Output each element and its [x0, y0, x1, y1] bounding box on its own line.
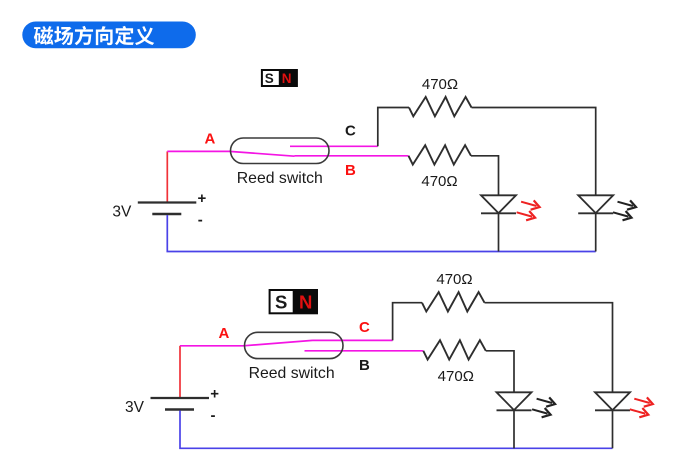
LED D1 light arrows	[532, 397, 555, 417]
svg-text:-: -	[198, 212, 203, 229]
svg-text:3V: 3V	[125, 399, 145, 416]
wire: node A to reed switch (magenta)	[180, 345, 244, 347]
svg-text:B: B	[345, 162, 356, 179]
svg-text:470Ω: 470Ω	[421, 173, 457, 190]
wire: LED1 cathode down	[498, 213, 500, 251]
svg-text:C: C	[345, 123, 356, 140]
wire: battery + up to node A (red)	[179, 346, 181, 397]
wire: battery - to LED cathodes (blue)	[180, 411, 613, 449]
magnet S-N top	[261, 69, 298, 87]
LED D2 light arrows	[613, 200, 636, 220]
wire: node A to reed switch (magenta)	[167, 150, 229, 152]
svg-text:Reed switch: Reed switch	[249, 365, 335, 382]
reed arm A-B closed (magenta)	[230, 151, 295, 156]
svg-text:B: B	[359, 357, 370, 374]
wire: R2 down to LED1	[486, 351, 514, 393]
wire: R1 to right vertical down to LED2	[485, 303, 613, 393]
svg-text:470Ω: 470Ω	[436, 271, 472, 288]
wire: R1 to right vertical down to LED2	[472, 108, 596, 196]
wire: battery + up to node A (red)	[166, 151, 168, 201]
contact C stub (magenta)	[290, 145, 378, 147]
svg-text:Reed switch: Reed switch	[237, 170, 323, 187]
svg-text:C: C	[359, 319, 370, 336]
svg-text:3V: 3V	[112, 204, 132, 221]
svg-text:A: A	[219, 325, 230, 342]
LED D1	[481, 195, 516, 213]
wire: LED2 cathode down	[612, 410, 614, 448]
battery bottom 3V	[151, 398, 210, 410]
resistor R1 470ohm	[409, 97, 472, 116]
LED D1	[497, 392, 532, 410]
svg-text:+: +	[198, 190, 207, 207]
wire: LED1 cathode down	[513, 410, 515, 448]
reed arm A-C closed (magenta)	[244, 340, 313, 345]
svg-text:-: -	[211, 407, 216, 424]
reed switch capsule	[245, 332, 344, 358]
svg-text:+: +	[210, 386, 219, 403]
magnet S-N bottom	[269, 289, 318, 314]
wire: node C up to R1 (black)	[393, 303, 422, 341]
resistor R2 470ohm	[409, 145, 472, 164]
LED D2	[578, 195, 613, 213]
wire: contact B out to R2 (magenta)	[295, 155, 409, 157]
resistor R2 470ohm	[423, 340, 486, 359]
wire: R2 down to LED1	[471, 156, 499, 196]
contact B stub (magenta)	[305, 350, 424, 352]
LED D2	[595, 392, 630, 410]
svg-text:N: N	[282, 71, 292, 86]
wire: LED2 cathode down	[595, 213, 597, 251]
LED D2 light arrows	[630, 397, 653, 417]
wire: node C up to R1 (black)	[378, 108, 409, 147]
svg-text:N: N	[299, 291, 312, 312]
LED D1 light arrows	[517, 200, 540, 220]
wire: contact C out to R1 vertical (magenta)	[313, 339, 393, 341]
battery top 3V	[138, 203, 197, 215]
svg-text:A: A	[205, 130, 216, 147]
svg-text:S: S	[265, 71, 274, 86]
svg-text:470Ω: 470Ω	[422, 76, 458, 93]
title pill: magnetic field direction definition	[22, 22, 196, 49]
svg-text:470Ω: 470Ω	[438, 368, 474, 385]
title text (CJK glyph paths)	[34, 26, 154, 45]
reed switch capsule	[231, 138, 330, 164]
resistor R1 470ohm	[422, 292, 485, 311]
svg-text:S: S	[275, 291, 287, 312]
wire: battery - to LED cathodes (blue)	[167, 215, 595, 252]
